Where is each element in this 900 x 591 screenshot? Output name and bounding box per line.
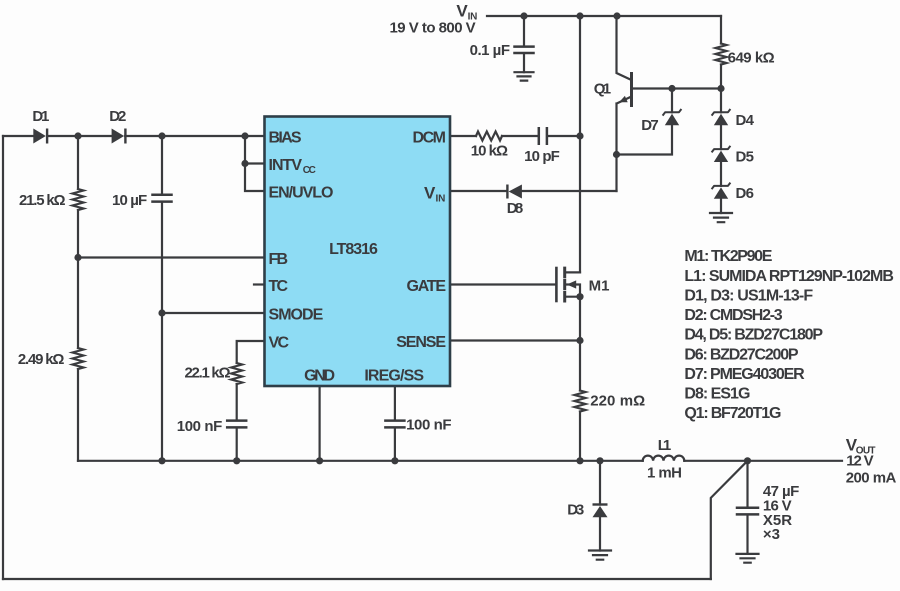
node BIAS / 21.5k: [74, 132, 81, 139]
svg-text:1 mH: 1 mH: [647, 464, 682, 481]
capacitor 0.1uF: [515, 47, 534, 53]
wire left edge column: [2, 136, 4, 579]
zener D6 bar: [712, 183, 731, 190]
node emitter / D7 return: [613, 151, 620, 158]
diode D2: [112, 129, 125, 144]
wire IREG/SS column: [394, 386, 396, 461]
svg-text:BIAS: BIAS: [269, 130, 302, 147]
wire 220m to rail: [579, 412, 581, 461]
node SENSE: [576, 337, 583, 344]
diode D8: [509, 185, 522, 199]
capacitor 10pF: [539, 128, 547, 143]
svg-text:FB: FB: [269, 251, 289, 268]
svg-text:D4: D4: [736, 112, 755, 129]
svg-text:D4, D5: BZD27C180P: D4, D5: BZD27C180P: [684, 327, 823, 344]
wire INTVcc/EN bus: [245, 136, 265, 191]
node base / 649k: [717, 85, 724, 92]
svg-text:DCM: DCM: [413, 130, 447, 147]
svg-text:IN: IN: [436, 194, 446, 205]
svg-text:D6: D6: [736, 185, 755, 202]
wire ground rail: [78, 460, 842, 462]
capacitor 47uF: [737, 508, 758, 515]
svg-text:10 µF: 10 µF: [112, 192, 147, 209]
wire 0.1uF column: [523, 16, 525, 72]
svg-text:LT8316: LT8316: [329, 241, 378, 258]
wire output feedback diagonal: [711, 461, 748, 579]
transistor Q1 base bar: [630, 74, 633, 106]
node top rail / x580: [576, 12, 583, 19]
wire bottom rail: [3, 578, 711, 580]
svg-text:CC: CC: [303, 165, 316, 176]
wire SMODE row: [162, 312, 265, 314]
wire top VIN rail: [487, 15, 721, 17]
svg-text:TC: TC: [269, 278, 289, 295]
wire M1 source column: [579, 297, 581, 391]
diode D1: [33, 129, 46, 144]
node INTVcc: [241, 160, 248, 167]
svg-text:×3: ×3: [763, 526, 780, 543]
inductor L1: [643, 456, 685, 461]
zener D7 triangle: [665, 114, 679, 125]
svg-text:L1: SUMIDA RPT129NP-102MB: L1: SUMIDA RPT129NP-102MB: [684, 268, 894, 285]
wire 10uF column: [161, 136, 163, 461]
svg-text:M1: M1: [589, 277, 610, 294]
svg-text:SENSE: SENSE: [396, 334, 446, 351]
svg-text:19 V to 800 V: 19 V to 800 V: [390, 20, 476, 37]
mosfet M1 drain: [565, 271, 580, 273]
svg-text:INTV: INTV: [269, 157, 303, 174]
resistor 22.1k: [231, 363, 242, 384]
zener D4 triangle: [714, 114, 728, 125]
diode D3: [593, 506, 608, 517]
node rail 100nF: [233, 457, 240, 464]
zener D7 bar: [663, 109, 682, 116]
svg-text:M1: TK2P90E: M1: TK2P90E: [684, 248, 772, 265]
svg-text:Q1: BF720T1G: Q1: BF720T1G: [684, 405, 781, 422]
svg-text:D6: BZD27C200P: D6: BZD27C200P: [684, 346, 799, 363]
svg-text:D2: CMDSH2-3: D2: CMDSH2-3: [684, 307, 782, 324]
resistor 10k: [476, 132, 502, 141]
IC LT8316 body: [265, 117, 451, 387]
svg-text:D3: D3: [567, 502, 584, 519]
wire VIN row with D8: [450, 190, 617, 192]
wire SENSE row: [450, 339, 580, 341]
svg-text:GATE: GATE: [407, 278, 447, 295]
wire Q1 base row: [632, 87, 722, 89]
wire FB row: [78, 256, 265, 258]
transistor Q1 emitter: [617, 97, 632, 192]
svg-text:22.1 kΩ: 22.1 kΩ: [185, 365, 231, 382]
svg-text:D1: D1: [32, 108, 49, 125]
svg-text:21.5 kΩ: 21.5 kΩ: [19, 192, 66, 209]
svg-text:IREG/SS: IREG/SS: [364, 368, 424, 385]
svg-text:V: V: [456, 2, 468, 21]
wire VC to 22.1k: [237, 341, 265, 461]
svg-text:100 nF: 100 nF: [406, 417, 452, 434]
wire TC stub: [254, 283, 265, 285]
svg-text:D1, D3: US1M-13-F: D1, D3: US1M-13-F: [684, 288, 813, 305]
svg-text:D7: PMEG4030ER: D7: PMEG4030ER: [684, 366, 805, 383]
node rail 220m: [576, 457, 583, 464]
wire 2.49k column: [77, 258, 79, 461]
node DCM / 10pF: [576, 132, 583, 139]
svg-text:D8: ES1G: D8: ES1G: [684, 386, 750, 403]
node rail GND: [316, 457, 323, 464]
svg-text:200 mA: 200 mA: [846, 469, 897, 486]
svg-text:100 nF: 100 nF: [177, 418, 222, 435]
svg-text:Q1: Q1: [594, 81, 611, 98]
wire 21.5k column: [77, 136, 79, 258]
transistor Q1 emitter arrow: [619, 96, 628, 102]
svg-text:EN/UVLO: EN/UVLO: [269, 185, 334, 202]
capacitor 100nF left: [227, 421, 246, 428]
node rail 10uF: [158, 457, 165, 464]
wire GND column: [319, 386, 321, 461]
ground D3: [589, 551, 611, 560]
svg-text:10 kΩ: 10 kΩ: [471, 143, 508, 160]
svg-text:SMODE: SMODE: [269, 307, 324, 324]
svg-text:220 mΩ: 220 mΩ: [590, 392, 645, 409]
svg-text:2.49 kΩ: 2.49 kΩ: [18, 351, 65, 368]
svg-text:D5: D5: [736, 148, 755, 165]
node rail IREG: [391, 457, 398, 464]
ground 47uF: [737, 554, 759, 563]
resistor 2.49k: [73, 348, 84, 369]
node base / D7: [668, 85, 675, 92]
wire GATE row: [450, 283, 556, 285]
ground 0.1uF: [515, 72, 534, 80]
resistor 220m: [575, 391, 586, 412]
resistor 649k: [716, 44, 727, 65]
ground D6: [710, 213, 732, 222]
node rail output: [744, 457, 751, 464]
svg-text:VC: VC: [269, 335, 290, 352]
transistor Q1 collector: [617, 16, 632, 80]
svg-text:L1: L1: [658, 437, 672, 454]
svg-text:12 V: 12 V: [846, 453, 873, 470]
node top rail / Q1 collector: [613, 12, 620, 19]
svg-text:10 pF: 10 pF: [524, 148, 560, 165]
wire BIAS row: [3, 135, 265, 137]
svg-text:D8: D8: [507, 200, 524, 217]
node BIAS / bus: [241, 132, 248, 139]
mosfet M1 gate bar: [555, 268, 558, 301]
svg-text:D2: D2: [109, 108, 126, 125]
wire D7 column: [617, 89, 673, 155]
node BIAS / 10uF: [158, 132, 165, 139]
zener D5 triangle: [714, 151, 728, 162]
mosfet M1 channel segments: [563, 268, 566, 301]
svg-text:D7: D7: [641, 117, 659, 134]
wire 649k column: [720, 16, 722, 112]
mosfet M1 body arrow: [567, 280, 576, 288]
svg-text:0.1 µF: 0.1 µF: [470, 42, 510, 59]
capacitor 100nF right: [385, 421, 404, 428]
wire D3 column: [599, 461, 601, 551]
node top rail / 0.1uF: [520, 12, 527, 19]
node SMODE / 10uF: [158, 309, 165, 316]
zener D4 bar: [712, 109, 731, 116]
svg-text:GND: GND: [304, 368, 335, 385]
wire DCM row: [450, 135, 580, 137]
node rail D3: [596, 457, 603, 464]
svg-text:649 kΩ: 649 kΩ: [728, 50, 775, 67]
wire D4-D5-D6 chain: [720, 125, 722, 213]
node M1 source: [576, 293, 583, 300]
capacitor 10uF: [153, 195, 172, 202]
svg-text:V: V: [424, 183, 436, 202]
wire x580 column (top rail to M1 drain): [579, 16, 581, 272]
zener D5 bar: [712, 146, 731, 153]
wire 47uF column: [746, 461, 748, 554]
mosfet M1 body and source: [565, 285, 580, 297]
resistor 21.5k: [73, 189, 84, 210]
zener D6 triangle: [714, 187, 728, 198]
node FB / 21.5k: [74, 254, 81, 261]
